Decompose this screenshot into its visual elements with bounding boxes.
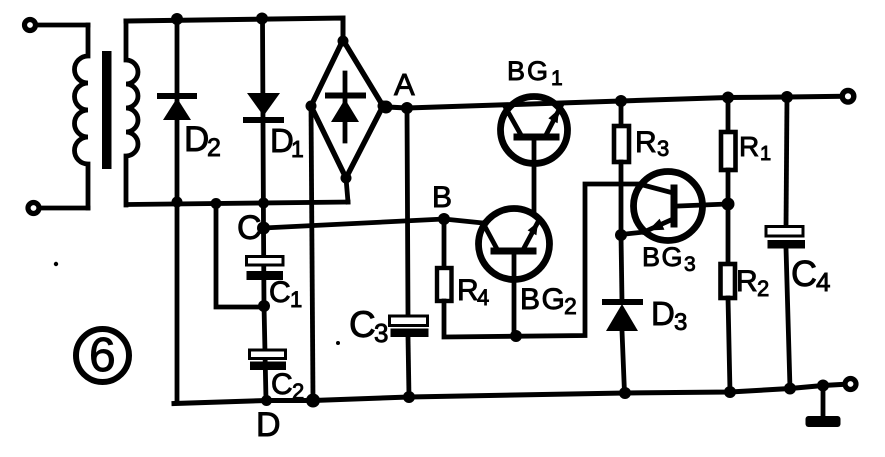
svg-text:3: 3 bbox=[657, 136, 669, 161]
wire primary bottom bbox=[41, 206, 88, 211]
capacitor C3 bbox=[390, 316, 429, 337]
wire C to B to BG2 bbox=[264, 219, 484, 228]
svg-text:C: C bbox=[271, 368, 293, 401]
output terminal top bbox=[842, 91, 854, 103]
transformer core bbox=[102, 51, 112, 169]
svg-text:R: R bbox=[736, 265, 758, 298]
transformer secondary winding bbox=[126, 22, 138, 205]
resistor R4 bbox=[437, 268, 452, 301]
svg-text:2: 2 bbox=[564, 293, 577, 319]
svg-text:1: 1 bbox=[291, 136, 304, 162]
svg-text:3: 3 bbox=[374, 318, 388, 348]
wire top rail left bbox=[126, 18, 343, 41]
diode D3 bbox=[605, 302, 640, 393]
junction dot D1 wire crossing bbox=[258, 198, 269, 209]
svg-text:1: 1 bbox=[760, 143, 771, 165]
speck bbox=[336, 341, 340, 345]
junction dot diamond right bbox=[378, 101, 389, 112]
svg-text:R: R bbox=[739, 131, 759, 162]
svg-text:BG: BG bbox=[520, 283, 566, 316]
svg-text:R: R bbox=[457, 274, 479, 307]
node dot D2 top bbox=[171, 13, 183, 25]
wire B to R4 bbox=[442, 219, 447, 268]
wire diamond left to bottom rail bbox=[311, 106, 313, 400]
svg-text:BG: BG bbox=[507, 56, 550, 86]
bridge inner diode bbox=[328, 73, 363, 141]
transistor BG3 bbox=[621, 172, 728, 241]
diode D2 bbox=[160, 96, 194, 120]
svg-text:C: C bbox=[349, 304, 376, 345]
wire C3 branch bbox=[407, 108, 408, 317]
resistor R3 bbox=[614, 101, 629, 235]
svg-text:1: 1 bbox=[290, 287, 302, 312]
junction dot BG2 emitter bbox=[510, 330, 522, 342]
output terminal bottom bbox=[845, 379, 856, 390]
junction dot C4 rail bbox=[784, 383, 796, 395]
svg-text:BG: BG bbox=[642, 242, 684, 272]
capacitor C2 bbox=[250, 350, 287, 370]
wire R4 bottom / BG2 emitter rail bbox=[444, 184, 643, 337]
resistor R1 bbox=[721, 98, 736, 205]
svg-text:3: 3 bbox=[684, 253, 696, 276]
junction dot C1 C2 bbox=[258, 300, 270, 312]
junction dot A2 bbox=[401, 102, 413, 114]
svg-text:4: 4 bbox=[816, 267, 830, 297]
node A dot bbox=[380, 101, 393, 114]
capacitor C4 bbox=[766, 97, 805, 389]
wire primary top bbox=[37, 23, 88, 28]
speck bbox=[54, 262, 58, 266]
junction dot diamond left bbox=[306, 101, 317, 112]
junction dot secondary bottom bbox=[172, 197, 183, 208]
transformer primary winding bbox=[75, 25, 89, 208]
junction dot C2 bottom bbox=[261, 395, 272, 406]
junction dot C3 rail bbox=[403, 391, 415, 403]
resistor R2 bbox=[721, 204, 736, 392]
figure number 6 bbox=[76, 329, 129, 382]
node C dot bbox=[257, 222, 270, 235]
svg-text:2: 2 bbox=[207, 134, 221, 162]
svg-text:C: C bbox=[791, 253, 817, 294]
bottom rail bbox=[174, 384, 845, 403]
junction dot diamond top bbox=[338, 36, 349, 47]
junction dot diamond bottom bbox=[341, 173, 352, 184]
svg-text:C: C bbox=[269, 276, 291, 309]
svg-text:D: D bbox=[256, 406, 281, 444]
svg-text:2: 2 bbox=[757, 276, 769, 301]
svg-text:3: 3 bbox=[674, 309, 687, 336]
svg-text:6: 6 bbox=[89, 329, 116, 382]
junction dot R3 top bbox=[615, 95, 627, 107]
svg-text:A: A bbox=[394, 67, 415, 102]
wire branch to C1C2 junction bbox=[216, 204, 263, 308]
diode D1 bbox=[246, 93, 281, 120]
junction dot R1 top bbox=[722, 92, 734, 104]
junction dot R2 rail bbox=[724, 386, 736, 398]
wire D1/C branch bbox=[263, 19, 267, 401]
wire D2 branch bbox=[175, 19, 180, 403]
input terminal bottom bbox=[28, 203, 39, 214]
svg-text:D: D bbox=[651, 295, 675, 332]
svg-text:C: C bbox=[237, 209, 262, 247]
junction dot rail 313 bbox=[306, 394, 320, 408]
svg-text:D: D bbox=[184, 120, 209, 159]
bridge diamond edges bbox=[311, 40, 383, 178]
junction dot D3 rail bbox=[619, 387, 631, 399]
node B dot bbox=[438, 213, 450, 225]
junction dot C4 top bbox=[781, 91, 793, 103]
node dot D1 top bbox=[256, 13, 268, 25]
input terminal top bbox=[25, 20, 36, 31]
svg-text:4: 4 bbox=[477, 285, 489, 310]
wire D3 branch bbox=[621, 235, 622, 302]
wire top rail right bbox=[383, 96, 842, 108]
capacitor C1 bbox=[247, 257, 284, 281]
svg-text:R: R bbox=[635, 126, 657, 159]
svg-text:1: 1 bbox=[551, 67, 563, 90]
junction dot R1 R2 base bbox=[722, 198, 735, 211]
junction dot ground bbox=[817, 380, 829, 392]
ground bbox=[806, 386, 841, 428]
wire C3 bottom bbox=[408, 337, 409, 397]
junction dot branch 216 bbox=[211, 198, 222, 209]
wire secondary bottom bbox=[128, 202, 348, 205]
transistor BG1 bbox=[501, 97, 568, 215]
transistor BG2 bbox=[479, 209, 550, 337]
wire diamond bottom to wire bbox=[346, 178, 348, 202]
svg-text:B: B bbox=[432, 181, 452, 214]
junction dot BG3 emitter node bbox=[615, 229, 627, 241]
